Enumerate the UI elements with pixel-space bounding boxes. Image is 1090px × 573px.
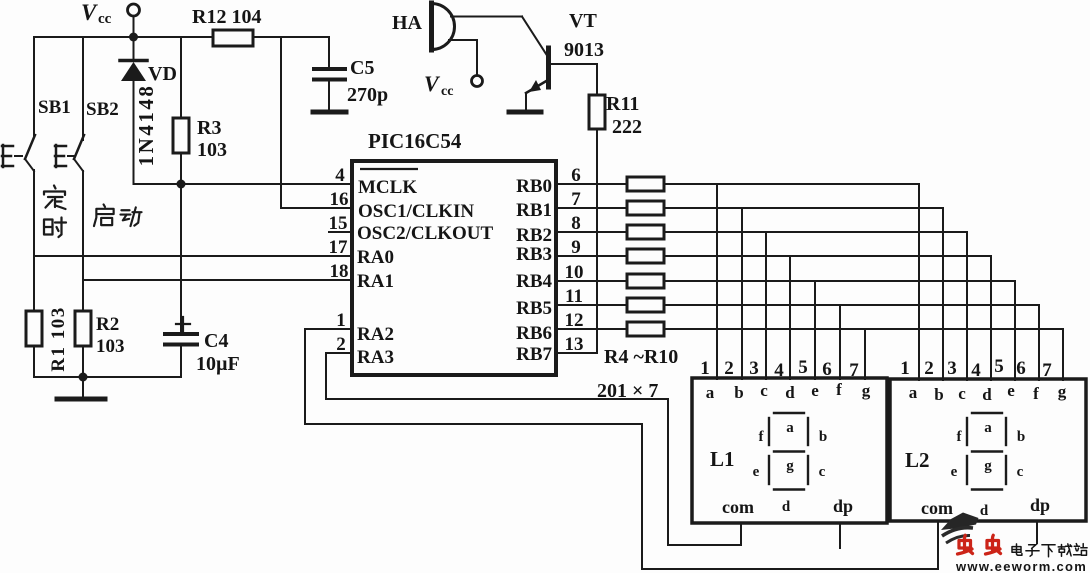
node ground junction dot (79, 373, 88, 382)
svg-text:SB1: SB1 (38, 97, 71, 118)
capacitor C4 10uF (165, 184, 197, 377)
svg-text:10µF: 10µF (196, 353, 240, 375)
svg-text:5: 5 (994, 356, 1004, 377)
svg-text:e: e (753, 464, 760, 480)
resistor R5 (627, 201, 664, 215)
svg-text:2: 2 (924, 358, 934, 379)
svg-text:g: g (984, 458, 992, 474)
svg-text:d: d (782, 499, 791, 515)
wire RB5 stub (pin 11) (556, 304, 627, 306)
logo 下 (1042, 545, 1055, 557)
wire segment c row (664, 232, 967, 380)
svg-text:17: 17 (329, 237, 349, 258)
resistor R9 (627, 298, 664, 312)
wire RA1 (pin 18) (83, 279, 352, 281)
switch SB2 (55, 37, 84, 311)
node R3/C4 junction dot (177, 180, 186, 189)
wire OSC2 stub (pin 15) (329, 231, 352, 233)
ground (main) (57, 377, 105, 399)
label MCLK with overline (358, 169, 418, 198)
resistor R12 (213, 30, 253, 46)
logo cap board (941, 513, 979, 531)
wire RB7 to R11 (pin 13) (556, 352, 597, 354)
wire RB0 stub (pin 6) (556, 183, 627, 185)
svg-text:VD: VD (148, 63, 177, 85)
svg-text:3: 3 (749, 358, 759, 379)
svg-text:7: 7 (571, 189, 581, 210)
logo cap brim arc 1 (942, 528, 973, 536)
diode VD 1N4148 (120, 37, 147, 184)
label VT 9013 (564, 10, 604, 61)
svg-text:c: c (760, 381, 768, 400)
wire segment e row (664, 281, 1015, 380)
logo 虫 1 (958, 535, 973, 554)
svg-text:13: 13 (565, 334, 584, 355)
logo 子 (1026, 545, 1039, 556)
L2 pin numbers 1-7 (900, 356, 1052, 381)
svg-text:RB7: RB7 (516, 344, 552, 365)
wire segment d row (664, 256, 991, 380)
svg-text:R2: R2 (96, 314, 119, 335)
label 动 (SB2 start) (120, 207, 141, 226)
svg-text:C5: C5 (350, 57, 374, 79)
wire RA0 (pin 17) (34, 255, 352, 257)
svg-text:e: e (951, 464, 958, 480)
svg-text:18: 18 (330, 261, 349, 282)
L1 glyph letters (753, 420, 828, 515)
svg-text:222: 222 (612, 116, 642, 138)
svg-text:c: c (958, 384, 966, 403)
svg-text:4: 4 (971, 360, 981, 381)
svg-text:a: a (984, 420, 992, 436)
svg-text:d: d (785, 383, 795, 402)
svg-text:R12 104: R12 104 (192, 6, 261, 28)
svg-text:b: b (1017, 429, 1025, 445)
resistor R10 (627, 322, 664, 336)
wire segment b row (664, 208, 943, 380)
svg-text:cc: cc (98, 11, 112, 27)
display L2 (890, 379, 1086, 521)
svg-text:dp: dp (833, 496, 853, 516)
svg-text:f: f (759, 429, 765, 445)
svg-text:cc: cc (441, 84, 453, 99)
ground (emitter) (509, 110, 541, 115)
svg-text:4: 4 (774, 360, 784, 381)
wire RA2 to L2 com (pin 1) (305, 329, 938, 569)
svg-text:RA3: RA3 (357, 347, 394, 368)
svg-text:1: 1 (336, 310, 346, 331)
wire RB3 stub (pin 9) (556, 255, 627, 257)
svg-text:f: f (1033, 384, 1039, 403)
svg-text:RA2: RA2 (357, 324, 394, 345)
label 定 (SB1 timing) (44, 186, 66, 210)
svg-text:HA: HA (392, 12, 423, 34)
svg-text:RA1: RA1 (357, 271, 394, 292)
svg-text:com: com (722, 497, 754, 517)
wire dp stub L2 (1036, 521, 1038, 543)
svg-text:e: e (811, 381, 819, 400)
ground (C5) (313, 110, 346, 115)
svg-text:VT: VT (569, 10, 597, 32)
svg-text:6: 6 (1016, 358, 1026, 379)
svg-text:dp: dp (1030, 495, 1050, 515)
svg-text:16: 16 (330, 189, 349, 210)
segment glyph L1 (769, 413, 808, 490)
svg-text:f: f (957, 429, 963, 445)
svg-text:OSC2/CLKOUT: OSC2/CLKOUT (357, 223, 494, 244)
svg-text:V: V (81, 0, 98, 25)
svg-text:RB3: RB3 (516, 244, 552, 265)
svg-text:6: 6 (571, 165, 581, 186)
label R3 103 (197, 117, 227, 161)
resistor R11 (589, 64, 605, 353)
svg-text:R3: R3 (197, 117, 221, 139)
transistor VT 9013 (526, 48, 597, 110)
svg-text:L2: L2 (905, 448, 930, 472)
svg-text:g: g (862, 381, 871, 400)
svg-text:MCLK: MCLK (358, 177, 417, 198)
L2 segment letters a-g (909, 381, 1067, 404)
label Vcc buzzer (424, 71, 453, 99)
svg-text:g: g (1058, 382, 1067, 401)
logo 虫 2 (986, 535, 1001, 554)
wire RA3 to L1 com (pin 2) (326, 353, 741, 545)
wire C5 branch (328, 37, 330, 110)
svg-text:C4: C4 (204, 330, 228, 352)
svg-text:RB5: RB5 (516, 298, 552, 319)
wire ground rail (34, 376, 181, 378)
svg-text:270p: 270p (347, 84, 388, 106)
wire RB4 stub (pin 10) (556, 280, 627, 282)
L1 pin numbers 1-7 (700, 357, 859, 381)
logo cap brim arc 2 (946, 535, 970, 543)
resistor R4 (627, 177, 664, 191)
svg-text:f: f (836, 380, 842, 399)
label R11 222 (606, 93, 642, 138)
IC U1 PIC16C54 (352, 161, 556, 375)
svg-text:1: 1 (900, 358, 910, 379)
svg-text:PIC16C54: PIC16C54 (368, 129, 462, 153)
svg-text:a: a (909, 383, 918, 402)
label C4 10uF (196, 330, 240, 375)
Vcc terminal (buzzer) (472, 76, 483, 87)
svg-text:c: c (1017, 464, 1024, 480)
label 启 (SB2 start) (94, 204, 114, 226)
svg-text:b: b (734, 383, 743, 402)
svg-text:9013: 9013 (564, 39, 604, 61)
svg-text:RB0: RB0 (516, 176, 552, 197)
wire RB1 stub (pin 7) (556, 207, 627, 209)
resistor R3 (173, 37, 189, 184)
capacitor C5 (314, 69, 345, 80)
svg-text:9: 9 (571, 237, 581, 258)
svg-text:R1 103: R1 103 (48, 306, 69, 371)
svg-text:7: 7 (1042, 360, 1052, 381)
svg-text:L1: L1 (710, 447, 735, 471)
node Vcc junction dot (129, 33, 138, 42)
svg-text:d: d (980, 503, 989, 519)
svg-text:3: 3 (947, 358, 957, 379)
label 时 (SB1 timing) (44, 218, 66, 238)
svg-text:a: a (786, 420, 794, 436)
logo 载 (1058, 544, 1072, 556)
svg-text:10: 10 (565, 262, 584, 283)
svg-text:R11: R11 (606, 93, 639, 115)
logo 电 (1012, 544, 1022, 555)
svg-text:www.eeworm.com: www.eeworm.com (955, 559, 1087, 573)
wire OSC1 branch (281, 37, 352, 208)
logo 站 (1074, 544, 1088, 556)
wire dp stub L1 (839, 523, 841, 548)
svg-text:8: 8 (571, 213, 581, 234)
svg-text:2: 2 (336, 334, 346, 355)
wire segment a row (664, 184, 919, 380)
wire RB2 stub (pin 8) (556, 231, 627, 233)
svg-text:2: 2 (724, 358, 734, 379)
resistor R2 (75, 311, 91, 377)
svg-text:103: 103 (96, 336, 125, 357)
label Vcc top (81, 0, 112, 27)
svg-text:V: V (424, 71, 441, 96)
svg-text:RB4: RB4 (516, 271, 552, 292)
label C5 270p (347, 57, 388, 106)
svg-text:7: 7 (849, 360, 859, 381)
svg-text:5: 5 (798, 357, 808, 378)
svg-text:6: 6 (822, 359, 832, 380)
L2 glyph letters (951, 420, 1026, 519)
display L1 (692, 378, 887, 523)
svg-text:e: e (1007, 381, 1015, 400)
svg-text:g: g (786, 458, 794, 474)
svg-text:b: b (819, 429, 827, 445)
svg-text:RB2: RB2 (516, 225, 552, 246)
svg-text:RB1: RB1 (516, 200, 552, 221)
segment glyph L2 (967, 413, 1006, 490)
label R2 103 (96, 314, 125, 357)
switch SB1 (2, 37, 35, 311)
svg-text:com: com (921, 498, 953, 518)
wire Vcc rail (34, 36, 329, 38)
Vcc terminal (top) (128, 4, 140, 37)
svg-text:d: d (982, 385, 992, 404)
svg-text:201 × 7: 201 × 7 (597, 380, 658, 402)
svg-text:OSC1/CLKIN: OSC1/CLKIN (358, 201, 474, 222)
wire buzzer to Vcc (449, 40, 477, 75)
svg-text:15: 15 (329, 213, 348, 234)
svg-text:SB2: SB2 (86, 99, 119, 120)
svg-text:12: 12 (565, 310, 584, 331)
svg-text:1N4148: 1N4148 (134, 84, 158, 167)
wire segment f row (664, 305, 1039, 380)
svg-text:RB6: RB6 (516, 323, 552, 344)
svg-text:4: 4 (335, 165, 345, 186)
svg-text:c: c (819, 464, 826, 480)
svg-text:b: b (934, 385, 943, 404)
svg-text:RA0: RA0 (357, 247, 394, 268)
svg-text:103: 103 (197, 139, 227, 161)
wire segment g row (664, 329, 1063, 380)
wire buzzer to collector (451, 17, 548, 58)
buzzer HA (432, 3, 455, 50)
svg-text:11: 11 (565, 286, 583, 307)
resistor R8 (627, 274, 664, 288)
resistor R1 (26, 311, 42, 377)
resistor R6 (627, 225, 664, 239)
svg-text:1: 1 (700, 358, 710, 379)
wire RB6 stub (pin 12) (556, 328, 627, 330)
svg-text:a: a (706, 383, 715, 402)
wire MCLK (pin 4) (134, 183, 353, 185)
resistor R7 (627, 249, 664, 263)
L1 segment letters a-g (706, 380, 871, 402)
svg-text:R4 ~R10: R4 ~R10 (604, 346, 678, 368)
